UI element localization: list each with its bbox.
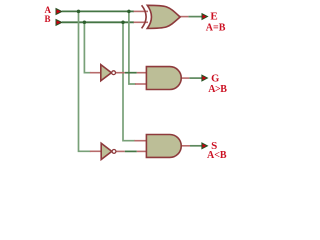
input terminal arrow B [56, 20, 62, 26]
pin XOR input A [134, 10, 148, 12]
wire NOT2 to AND2 [125, 150, 137, 152]
pin AND2 input top [134, 140, 146, 142]
svg-text:A=B: A=B [206, 23, 226, 34]
junction node B-drop1 [83, 21, 87, 25]
svg-text:B: B [45, 14, 51, 24]
wire A vertical drop to AND1 [129, 11, 136, 84]
xor gate U1 body [147, 5, 180, 28]
pin AND2 input bottom [137, 150, 147, 152]
not gate U5 bubble [112, 150, 116, 154]
svg-text:E: E [210, 11, 217, 23]
svg-text:A>B: A>B [208, 84, 227, 95]
wire A vertical drop to NOT2 [79, 11, 91, 151]
junction node A-drop2 [127, 10, 131, 14]
and gate U3 (A<B) [146, 135, 181, 158]
pin NOT1 output [116, 72, 125, 74]
wire A horizontal [62, 10, 134, 12]
wire B vertical drop to NOT1 [84, 22, 90, 72]
xor gate U1 leading arc [142, 5, 147, 28]
pin AND1 input top [137, 72, 147, 74]
pin NOT1 input [90, 72, 101, 74]
not gate U4 bubble [112, 71, 116, 75]
wire NOT1 to AND1 [125, 72, 137, 74]
pin NOT2 input [90, 150, 102, 152]
junction node B-drop2 [121, 21, 125, 25]
wire B vertical drop to AND2 [123, 22, 135, 140]
output terminal arrow S [202, 143, 208, 149]
wire AND1 output to G arrow [189, 77, 202, 79]
wire AND2 output to S arrow [190, 145, 202, 147]
not gate U5 triangle [101, 143, 112, 159]
pin AND1 input bottom [135, 83, 146, 85]
wire B horizontal [62, 21, 134, 23]
pin AND1 output [181, 77, 190, 79]
pin XOR output [180, 16, 189, 18]
junction node A-drop1 [77, 10, 81, 14]
wire XOR output to E arrow [188, 16, 202, 18]
output terminal arrow G [202, 75, 208, 81]
pin AND2 output [181, 145, 191, 147]
pin XOR input B [134, 21, 148, 23]
not gate U4 triangle [101, 65, 112, 81]
input terminal arrow A [56, 9, 62, 15]
output terminal arrow E [202, 14, 208, 20]
and gate U2 (A>B) [146, 67, 181, 90]
pin NOT2 output [116, 150, 125, 152]
svg-text:A<B: A<B [207, 150, 227, 161]
